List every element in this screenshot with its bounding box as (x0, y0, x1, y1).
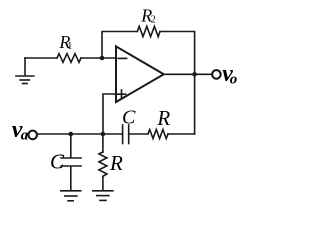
wire (op-amp output to vo terminal) (164, 73, 212, 75)
svg-text:a: a (21, 128, 29, 144)
svg-text:2: 2 (151, 14, 156, 25)
resistor R (series feedback) (148, 130, 168, 139)
wire (va terminal to series C) (37, 133, 122, 135)
node (shunt C junction) (69, 132, 74, 137)
resistor R (shunt to ground) (99, 134, 107, 190)
wire (ground to R1) (25, 57, 57, 59)
node (inverting input junction) (100, 56, 105, 61)
svg-text:R: R (156, 106, 170, 130)
wire (series R to right vertical) (168, 133, 195, 135)
wire (R1 to inverting input) (81, 57, 116, 59)
wire (inverting node up to R2 left) (102, 32, 137, 59)
node (non-inverting / shunt R junction) (101, 132, 106, 137)
terminal va (open circle) (28, 131, 37, 140)
svg-text:C: C (50, 150, 65, 174)
capacitor C (shunt at va) (61, 134, 81, 190)
ground (left input reference) (16, 58, 34, 84)
capacitor C (series, feedback to + input) (123, 125, 129, 144)
wire (non-inverting input down to rail) (103, 94, 116, 134)
wire (R2 right over and down to output node, down to RC) (160, 32, 195, 135)
node (output junction) (192, 72, 197, 77)
op-amp U1 (116, 46, 164, 102)
svg-text:o: o (230, 72, 238, 88)
svg-text:R: R (109, 151, 123, 175)
svg-text:1: 1 (67, 41, 72, 52)
resistor R2 (137, 26, 160, 36)
resistor R1 (57, 54, 81, 63)
ground (under shunt C) (61, 191, 81, 201)
svg-text:C: C (122, 106, 136, 128)
ground (under shunt R) (93, 191, 113, 201)
terminal vo (open circle) (212, 70, 221, 79)
wire (series C to series R) (129, 133, 148, 135)
